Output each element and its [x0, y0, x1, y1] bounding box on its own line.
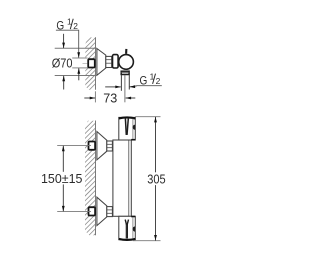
dimension 305 line: [155, 117, 157, 241]
lower wall fitting square: [89, 207, 96, 215]
upper union nut: [107, 141, 113, 151]
union nut (top view): [106, 56, 112, 67]
top knob (temperature handle): [119, 117, 136, 140]
handle knob circle (top view): [119, 55, 134, 70]
dimension 73 extension line at wall: [94, 91, 96, 102]
top knob inner line: [132, 119, 134, 140]
bottom knob top-right bold mark: [131, 216, 135, 218]
bottom knob grip wedge: [125, 220, 126, 225]
bottom knob inner line: [132, 217, 134, 238]
mixer body tube: [113, 140, 131, 216]
bottom knob bold bottom edge: [119, 238, 136, 241]
outlet pipe axis / dim extension: [124, 75, 126, 102]
wall face line (front view): [94, 121, 96, 236]
top knob bold top edge: [119, 116, 136, 119]
svg-text:305: 305: [147, 172, 165, 187]
svg-text:Ø70: Ø70: [52, 55, 73, 70]
dimension 305 extension lines: [135, 116, 160, 118]
outlet collar below knob: [121, 71, 129, 74]
lower union nut: [107, 207, 113, 217]
G1/2 (left) lower arrow: [78, 68, 80, 80]
top knob side button: [133, 125, 136, 130]
bottom knob (volume handle): [119, 216, 136, 239]
dimension 150±15 line: [62, 146, 64, 212]
bottom knob side button: [133, 226, 136, 231]
label G1/2 (left) underline leader: [56, 30, 79, 58]
label G1/2 (right) underline: [137, 85, 162, 87]
dimension Ø70 extension lines: [55, 47, 97, 49]
svg-text:73: 73: [103, 90, 117, 105]
dimension 150±15 extension lines: [57, 145, 91, 147]
outlet pipe: [120, 75, 122, 91]
tube highlight line: [128, 140, 130, 216]
dimension 73 left arrow: [84, 97, 95, 99]
upper wall fitting square: [89, 142, 96, 150]
dimension 305 text: [146, 172, 166, 185]
wall (front view) hatching: [76, 109, 100, 258]
top knob bottom-right bold mark: [131, 139, 135, 141]
valve body (top view, bold): [113, 55, 119, 68]
dimension 73 right arrow: [126, 97, 136, 99]
top knob grip wedge: [124, 119, 127, 135]
svg-text:150±15: 150±15: [41, 171, 82, 186]
wall (top view) hatching: [78, 24, 100, 101]
handle lever stub on knob: [125, 49, 127, 54]
G1/2 supply pipe stub lines: [72, 57, 87, 59]
supply pipe interior mask: [82, 59, 88, 68]
dimension Ø70 top arrow: [63, 34, 65, 48]
wall fitting square (top view): [88, 59, 95, 67]
upper escutcheon cone: [97, 132, 107, 160]
dimension 150±15 text: [40, 172, 83, 185]
wall face line (top view): [94, 37, 96, 89]
label G1/2 (right) pipe arrows: [105, 86, 121, 88]
escutcheon cone (top view): [97, 49, 106, 76]
svg-text:2: 2: [73, 21, 78, 31]
dimension Ø70 bottom arrow: [63, 76, 65, 90]
svg-text:2: 2: [156, 76, 161, 86]
supply axis line: [83, 63, 88, 65]
svg-text:G: G: [140, 73, 148, 87]
lower escutcheon cone: [97, 197, 107, 225]
